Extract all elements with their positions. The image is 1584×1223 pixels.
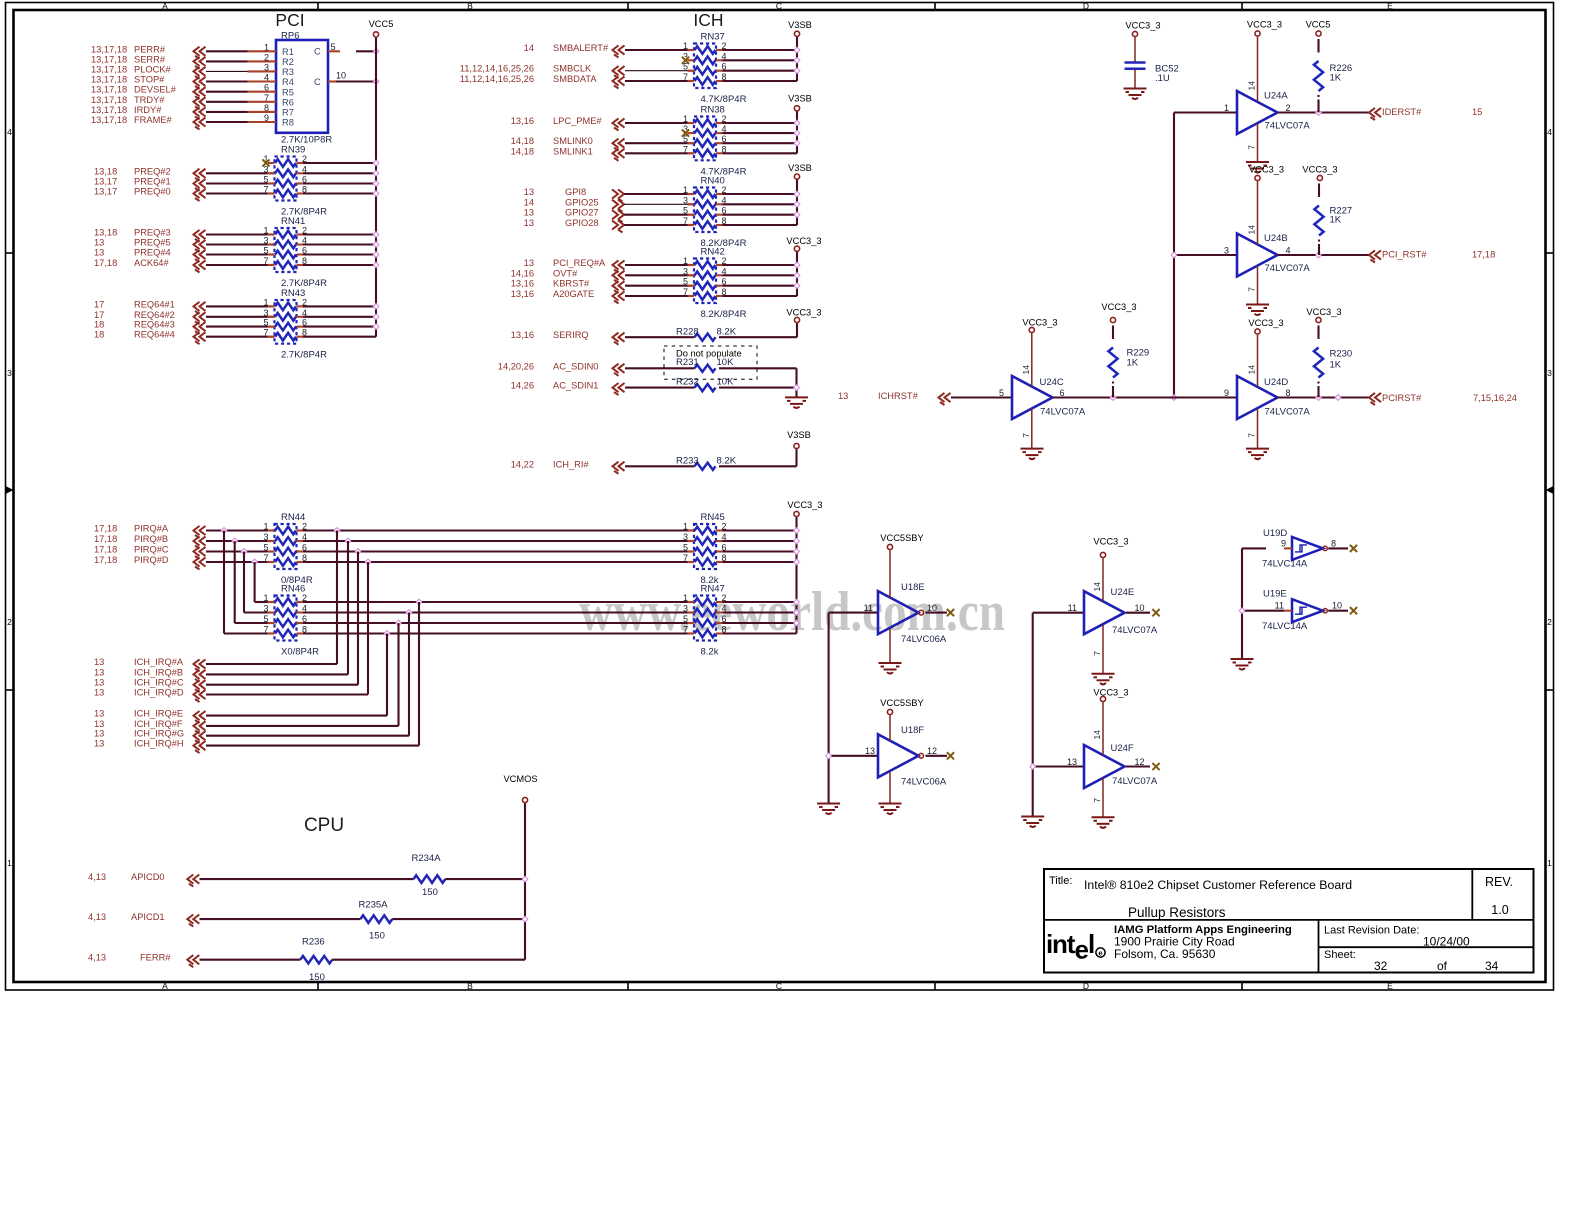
junction — [232, 538, 238, 544]
svg-text:VCC3_3: VCC3_3 — [1022, 318, 1057, 328]
ground — [1092, 817, 1115, 828]
svg-text:R236: R236 — [302, 937, 325, 948]
svg-text:Intel® 810e2 Chipset Customer: Intel® 810e2 Chipset Customer Reference … — [1084, 878, 1352, 892]
svg-text:VCC3_3: VCC3_3 — [786, 307, 821, 317]
svg-text:SMBCLK: SMBCLK — [553, 64, 592, 74]
svg-text:13,17,18: 13,17,18 — [91, 54, 127, 64]
wire ICH_IRQ#C — [206, 684, 358, 686]
svg-text:U19D: U19D — [1263, 528, 1287, 539]
buffer U24A — [1224, 91, 1310, 135]
wire REQ64#3 — [206, 326, 275, 328]
svg-text:14: 14 — [1092, 582, 1102, 592]
svg-text:12: 12 — [927, 746, 937, 756]
svg-text:4.7K/8P4R: 4.7K/8P4R — [701, 94, 747, 105]
svg-text:VCC5SBY: VCC5SBY — [880, 698, 923, 708]
wire U24C output — [1053, 396, 1238, 398]
wire RN46 to RN47 — [303, 601, 694, 603]
svg-text:10/24/00: 10/24/00 — [1423, 935, 1470, 949]
svg-text:U24E: U24E — [1111, 587, 1135, 598]
junction — [826, 753, 832, 759]
svg-text:l: l — [1088, 929, 1095, 959]
wire PIRQ#B — [206, 540, 275, 542]
junction — [794, 599, 800, 605]
no-connect X U24E — [1152, 609, 1159, 616]
svg-text:13,17,18: 13,17,18 — [91, 85, 127, 95]
wire U18 input net — [829, 613, 878, 803]
port ICHRST# — [838, 391, 951, 405]
port PERR# — [91, 44, 206, 59]
svg-text:ICH_IRQ#G: ICH_IRQ#G — [134, 729, 184, 739]
svg-text:VCC5: VCC5 — [369, 19, 394, 29]
port LPC_PME# — [511, 116, 625, 131]
power VCC5 — [369, 19, 394, 37]
svg-text:74LVC07A: 74LVC07A — [1040, 407, 1086, 418]
svg-text:13,18: 13,18 — [94, 166, 117, 176]
junction — [373, 242, 379, 248]
svg-text:150: 150 — [422, 887, 438, 898]
wire to VCC5 rail — [303, 182, 376, 184]
svg-text:U24F: U24F — [1111, 743, 1134, 754]
port ICH_IRQ#B — [94, 667, 206, 682]
svg-text:ICH_IRQ#A: ICH_IRQ#A — [134, 657, 184, 667]
svg-text:VCC3_3: VCC3_3 — [1247, 20, 1282, 30]
wire U19D output — [1328, 547, 1348, 549]
svg-text:ICH_IRQ#D: ICH_IRQ#D — [134, 688, 184, 698]
svg-text:PREQ#2: PREQ#2 — [134, 166, 171, 176]
svg-text:LPC_PME#: LPC_PME# — [553, 116, 602, 126]
svg-text:APICD1: APICD1 — [131, 912, 165, 922]
svg-text:ICH_IRQ#H: ICH_IRQ#H — [134, 739, 184, 749]
svg-text:VCC3_3: VCC3_3 — [1248, 318, 1283, 328]
svg-text:RP6: RP6 — [281, 31, 299, 42]
svg-text:17,18: 17,18 — [1472, 250, 1495, 260]
port PREQ#3 — [94, 228, 206, 243]
svg-text:1K: 1K — [1330, 360, 1342, 371]
junction — [794, 385, 800, 391]
resistor R230 — [1306, 307, 1352, 398]
resistor network RN40 — [683, 176, 747, 250]
wire VCMOS rail — [524, 803, 526, 960]
svg-text:PCI_REQ#A: PCI_REQ#A — [553, 258, 606, 268]
svg-text:14: 14 — [1247, 225, 1257, 235]
svg-text:U18F: U18F — [901, 725, 924, 736]
port SERIRQ — [511, 330, 625, 345]
wire PREQ#2 — [206, 172, 275, 174]
svg-text:R232: R232 — [676, 377, 699, 388]
port PLOCK# — [91, 64, 206, 79]
port STOP# — [91, 75, 206, 90]
junction — [373, 160, 379, 166]
svg-text:13,17: 13,17 — [94, 177, 117, 187]
svg-text:Title:: Title: — [1049, 875, 1072, 887]
svg-text:3: 3 — [7, 368, 12, 378]
wire U24F pin7 — [1092, 778, 1103, 817]
svg-text:PERR#: PERR# — [134, 44, 166, 54]
svg-text:1K: 1K — [1330, 73, 1342, 84]
power VCC3_3 — [1249, 165, 1284, 181]
buffer U24B — [1224, 233, 1310, 277]
svg-text:CPU: CPU — [304, 815, 344, 836]
wire V3SB rail RN38 — [723, 112, 798, 154]
buffer U24F — [1067, 743, 1158, 788]
junction — [1316, 252, 1322, 258]
power VCC3_3 — [1247, 20, 1282, 37]
svg-text:PCI_RST#: PCI_RST# — [1382, 250, 1427, 260]
svg-text:ICH_IRQ#E: ICH_IRQ#E — [134, 709, 183, 719]
svg-text:PIRQ#A: PIRQ#A — [134, 524, 169, 534]
wire R232 to ground — [719, 388, 797, 397]
svg-text:VCC3_3: VCC3_3 — [787, 500, 822, 510]
wire U24B pin14 — [1247, 181, 1258, 244]
svg-text:13: 13 — [524, 258, 534, 268]
svg-text:5: 5 — [999, 388, 1004, 398]
wire REQ64#4 — [206, 336, 275, 338]
resistor network RN46 — [263, 584, 319, 658]
wire ICHRST feed vertical — [1174, 113, 1237, 398]
power V3SB — [787, 430, 811, 449]
svg-text:FRAME#: FRAME# — [134, 115, 173, 125]
svg-text:7,15,16,24: 7,15,16,24 — [1473, 393, 1517, 403]
junction — [1316, 395, 1322, 401]
wire STOP# — [206, 80, 276, 82]
svg-text:Pullup Resistors: Pullup Resistors — [1128, 905, 1226, 920]
svg-text:int: int — [1046, 929, 1076, 959]
svg-text:REQ64#3: REQ64#3 — [134, 320, 175, 330]
power VCC5SBY — [880, 698, 923, 715]
svg-text:SERIRQ: SERIRQ — [553, 330, 589, 340]
port TRDY# — [91, 95, 206, 110]
ground — [1246, 449, 1269, 460]
wire FERR# — [200, 959, 301, 961]
resistor R231 — [676, 357, 734, 372]
svg-text:ICH_RI#: ICH_RI# — [553, 459, 589, 469]
svg-text:R228: R228 — [676, 326, 699, 337]
svg-text:13,17: 13,17 — [94, 187, 117, 197]
junction — [334, 528, 340, 534]
svg-text:V3SB: V3SB — [787, 430, 811, 440]
svg-text:74LVC06A: 74LVC06A — [901, 777, 947, 788]
svg-text:E: E — [1387, 981, 1393, 991]
svg-text:APICD0: APICD0 — [131, 872, 165, 882]
junction — [373, 262, 379, 268]
port PREQ#5 — [94, 238, 206, 253]
wire ICH_IRQ#G — [206, 735, 409, 737]
wire PIRQ#A — [206, 529, 275, 531]
svg-text:R5: R5 — [282, 87, 294, 97]
power V3SB — [788, 94, 812, 111]
port ICH_IRQ#H — [94, 739, 206, 754]
wire ICH_IRQ#E — [206, 715, 387, 717]
svg-text:Last Revision Date:: Last Revision Date: — [1324, 925, 1419, 937]
svg-text:PIRQ#C: PIRQ#C — [134, 545, 169, 555]
wire TRDY# — [206, 101, 276, 103]
wire V3SB rail RN40 — [723, 180, 798, 225]
wire RN46 to RN47 — [303, 611, 694, 613]
svg-text:ICH_IRQ#F: ICH_IRQ#F — [134, 719, 183, 729]
svg-text:VCC3_3: VCC3_3 — [1306, 307, 1341, 317]
svg-text:14: 14 — [524, 197, 534, 207]
svg-text:VCC3_3: VCC3_3 — [1093, 688, 1128, 698]
wire U24B output PCI_RST# — [1278, 254, 1370, 256]
section label PCI — [275, 10, 304, 30]
wire U18F pin14 — [889, 715, 891, 741]
wire VCC3_3 rail RN45 RN47 — [723, 517, 797, 633]
wire U24F output — [1126, 765, 1150, 767]
note Do not populate — [664, 346, 757, 379]
port PREQ#4 — [94, 248, 206, 263]
wire PLOCK# — [206, 70, 276, 72]
svg-text:SMBALERT#: SMBALERT# — [553, 43, 609, 53]
wire SMLINK1 — [625, 152, 694, 154]
svg-text:13: 13 — [94, 248, 104, 258]
svg-text:13,16: 13,16 — [511, 289, 534, 299]
svg-text:150: 150 — [309, 972, 325, 983]
junction — [396, 620, 402, 626]
svg-text:13: 13 — [524, 208, 534, 218]
wire ICH_IRQ#F — [206, 725, 399, 727]
wire vertical to ICH_IRQ — [408, 613, 410, 736]
svg-text:14: 14 — [1021, 365, 1031, 375]
wire R235A to VCMOS — [392, 918, 525, 920]
svg-text:ICH_IRQ#B: ICH_IRQ#B — [134, 667, 183, 677]
svg-text:1K: 1K — [1330, 215, 1342, 226]
svg-text:R7: R7 — [282, 108, 294, 118]
wire to VCC5 rail — [303, 243, 376, 245]
svg-text:74LVC07A: 74LVC07A — [1112, 625, 1158, 636]
wire vertical to ICH_IRQ — [397, 623, 399, 726]
wire RN44 to RN45 — [303, 540, 694, 542]
svg-text:13,16: 13,16 — [511, 116, 534, 126]
svg-text:PREQ#3: PREQ#3 — [134, 228, 171, 238]
wire R228 to VCC3_3 — [719, 323, 797, 337]
svg-text:32: 32 — [1374, 959, 1388, 973]
no-connect X RN37 pin3 — [682, 57, 689, 64]
svg-text:7: 7 — [1247, 287, 1257, 292]
svg-text:STOP#: STOP# — [134, 75, 165, 85]
svg-text:14,26: 14,26 — [511, 381, 534, 391]
port APICD0 — [88, 872, 199, 887]
svg-text:8.2k: 8.2k — [701, 647, 719, 658]
svg-text:U18E: U18E — [901, 582, 925, 593]
junction — [373, 304, 379, 310]
svg-text:34: 34 — [1485, 959, 1499, 973]
svg-text:10K: 10K — [717, 357, 735, 368]
junction — [794, 212, 800, 218]
svg-text:PIRQ#B: PIRQ#B — [134, 534, 168, 544]
wire PREQ#3 — [206, 233, 275, 235]
port ACK64# — [94, 258, 206, 273]
wire U24E output — [1126, 612, 1150, 614]
svg-text:14,22: 14,22 — [511, 459, 534, 469]
junction — [1316, 110, 1322, 116]
wire U18F pin7 — [889, 771, 891, 803]
svg-text:13,17,18: 13,17,18 — [91, 64, 127, 74]
port PREQ#2 — [94, 166, 206, 181]
svg-text:14,18: 14,18 — [511, 136, 534, 146]
svg-text:Sheet:: Sheet: — [1324, 949, 1356, 961]
wire OVT# — [625, 274, 694, 276]
port FRAME# — [91, 115, 206, 130]
wire VCC5 rail — [375, 38, 377, 337]
port IDERST# — [1369, 107, 1482, 120]
svg-text:ICHRST#: ICHRST# — [878, 391, 919, 401]
svg-text:74LVC14A: 74LVC14A — [1262, 621, 1308, 632]
junction — [345, 538, 351, 544]
svg-text:13: 13 — [94, 739, 104, 749]
svg-text:74LVC07A: 74LVC07A — [1265, 407, 1311, 418]
resistor R229 — [1101, 302, 1149, 398]
svg-text:R3: R3 — [282, 67, 294, 77]
svg-text:C: C — [314, 77, 321, 87]
svg-text:R6: R6 — [282, 97, 294, 107]
junction — [794, 201, 800, 207]
svg-text:4: 4 — [1547, 127, 1552, 137]
port PCI_REQ#A — [524, 258, 625, 273]
svg-text:9: 9 — [1224, 388, 1229, 398]
power VCC3_3 — [786, 307, 821, 322]
wire VCC3_3 rail RN42 — [723, 252, 798, 296]
svg-text:R2: R2 — [282, 57, 294, 67]
svg-text:IDERST#: IDERST# — [1382, 107, 1422, 117]
junction — [384, 631, 390, 637]
svg-text:VCC3_3: VCC3_3 — [1101, 302, 1136, 312]
svg-text:R230: R230 — [1330, 349, 1353, 360]
resistor R228 — [676, 326, 737, 341]
no-connect X U24F — [1152, 763, 1159, 770]
svg-text:OVT#: OVT# — [553, 268, 578, 278]
svg-text:7: 7 — [1021, 433, 1031, 438]
svg-text:GPIO25: GPIO25 — [565, 197, 599, 207]
port A20GATE — [511, 289, 625, 304]
junction — [522, 876, 528, 882]
section label ICH — [693, 10, 723, 30]
wire U24E pin7 — [1092, 625, 1103, 673]
svg-text:TRDY#: TRDY# — [134, 95, 165, 105]
power V3SB — [788, 163, 812, 179]
no-connect X U19E — [1350, 607, 1357, 614]
svg-text:1K: 1K — [1127, 358, 1139, 369]
wire U24A pin14 — [1247, 37, 1258, 102]
svg-text:of: of — [1437, 959, 1448, 973]
junction — [794, 620, 800, 626]
port REQ64#4 — [94, 330, 206, 345]
svg-text:U19E: U19E — [1263, 589, 1287, 600]
port GPI8 — [524, 187, 624, 202]
inverter U19E — [1262, 589, 1342, 633]
junction — [794, 130, 800, 136]
svg-text:17: 17 — [94, 299, 104, 309]
svg-text:U24C: U24C — [1040, 377, 1064, 388]
wire RP6 pin5 to VCC5 rail — [328, 50, 376, 52]
svg-text:13: 13 — [94, 709, 104, 719]
svg-text:17,18: 17,18 — [94, 524, 117, 534]
svg-text:R231: R231 — [676, 357, 699, 368]
port DEVSEL# — [91, 85, 206, 100]
section label CPU — [304, 815, 344, 836]
svg-text:8.2K/8P4R: 8.2K/8P4R — [701, 309, 747, 320]
wire V3SB rail RN37 — [723, 37, 798, 81]
svg-text:VCMOS: VCMOS — [503, 774, 537, 784]
port APICD1 — [88, 912, 199, 927]
resistor network RN42 — [683, 247, 747, 321]
junction — [794, 191, 800, 197]
svg-text:1: 1 — [1224, 103, 1229, 113]
wire SMLINK0 — [625, 142, 694, 144]
svg-text:7: 7 — [1247, 145, 1257, 150]
wire ICH_IRQ#D — [206, 693, 368, 695]
svg-text:A20GATE: A20GATE — [553, 289, 594, 299]
svg-text:4,13: 4,13 — [88, 953, 106, 963]
svg-text:74LVC07A: 74LVC07A — [1265, 121, 1311, 132]
ground — [879, 663, 902, 674]
wire GPIO25 — [624, 203, 694, 205]
svg-text:11,12,14,16,25,26: 11,12,14,16,25,26 — [460, 74, 534, 84]
svg-text:17,18: 17,18 — [94, 534, 117, 544]
svg-text:13: 13 — [838, 391, 848, 401]
junction — [365, 559, 371, 565]
svg-text:VCC5SBY: VCC5SBY — [880, 533, 923, 543]
wire SMBCLK — [625, 70, 694, 72]
svg-text:REQ64#2: REQ64#2 — [134, 310, 175, 320]
wire U24C pin7 — [1021, 408, 1032, 448]
port PCI_RST# — [1369, 250, 1495, 263]
svg-text:13,17,18: 13,17,18 — [91, 105, 127, 115]
wire ICH_IRQ#A — [206, 663, 337, 665]
wire R231 to ground rail — [719, 368, 797, 387]
resistor R236 — [300, 937, 332, 984]
svg-text:PIRQ#D: PIRQ#D — [134, 555, 169, 565]
junction — [794, 47, 800, 53]
svg-text:REV.: REV. — [1485, 875, 1513, 889]
port ICH_IRQ#A — [94, 657, 206, 672]
svg-text:PREQ#5: PREQ#5 — [134, 238, 171, 248]
power VCMOS — [503, 774, 537, 803]
wire APICD0 — [200, 878, 414, 880]
port REQ64#3 — [94, 320, 206, 335]
svg-text:V3SB: V3SB — [788, 163, 812, 173]
svg-text:U24D: U24D — [1264, 377, 1288, 388]
svg-text:D: D — [1083, 981, 1089, 991]
svg-text:11,12,14,16,25,26: 11,12,14,16,25,26 — [460, 64, 534, 74]
port FERR# — [88, 953, 199, 968]
wire U24E pin14 — [1092, 558, 1103, 601]
junction — [1239, 608, 1245, 614]
svg-text:R233: R233 — [676, 455, 699, 466]
wire U18E pin14 — [889, 550, 891, 598]
wire to VCC5 rail — [303, 172, 376, 174]
svg-text:18: 18 — [94, 320, 104, 330]
svg-text:A: A — [162, 1, 168, 11]
wire PREQ#0 — [206, 192, 275, 194]
resistor network RN38 — [683, 105, 747, 178]
svg-text:13,16: 13,16 — [511, 330, 534, 340]
junction — [794, 283, 800, 289]
svg-text:A: A — [162, 981, 168, 991]
wire ICH_IRQ#H — [206, 745, 419, 747]
svg-text:PCIRST#: PCIRST# — [1382, 393, 1422, 403]
svg-text:17,18: 17,18 — [94, 555, 117, 565]
svg-text:13,17,18: 13,17,18 — [91, 95, 127, 105]
wire U24A output IDERST# — [1278, 111, 1370, 113]
svg-text:17,18: 17,18 — [94, 545, 117, 555]
svg-text:X0/8P4R: X0/8P4R — [281, 647, 319, 658]
junction — [241, 549, 247, 555]
wire ICHRST# to U24C — [951, 396, 1012, 398]
resistor network RN41 — [263, 216, 327, 289]
svg-text:14: 14 — [1247, 365, 1257, 375]
svg-text:18: 18 — [94, 330, 104, 340]
svg-text:2: 2 — [1547, 617, 1552, 627]
